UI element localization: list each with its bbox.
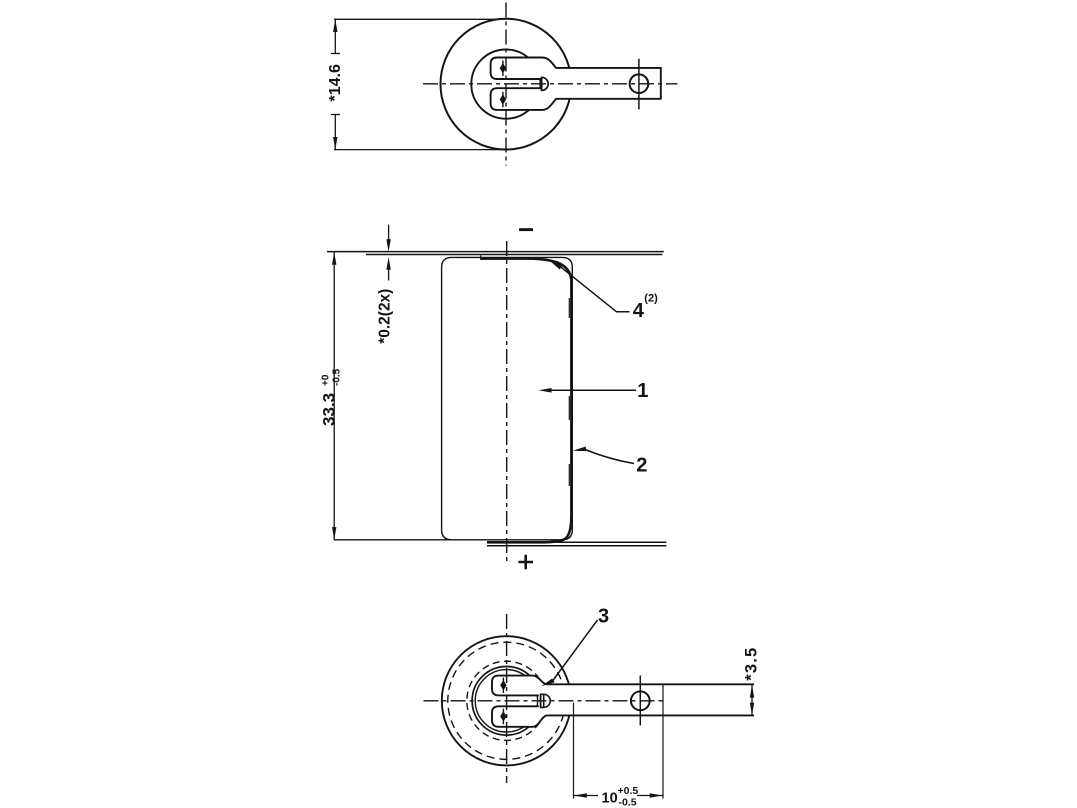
leader 4 arrowhead <box>550 261 563 269</box>
positive tab bottom surface line <box>487 545 666 547</box>
0.2 dimension upper arrow <box>386 225 390 252</box>
dimension text 33.3 +0 -0.5 <box>320 368 343 426</box>
dimension text *0.2(2x) <box>377 289 394 344</box>
leader 3 arrowhead <box>541 679 555 687</box>
positive tab top surface line (bottom of side view) <box>487 541 666 543</box>
svg-text:*14.6: *14.6 <box>327 64 344 101</box>
10 dimension line right segment <box>637 795 663 797</box>
slot cap chord line <box>541 77 543 90</box>
hidden circle (sleeve fold) dashed <box>448 642 565 759</box>
10 dimension left arrowhead <box>574 793 587 797</box>
svg-text:1: 1 <box>637 380 648 402</box>
tab hole bottom view <box>631 691 650 710</box>
svg-text:2: 2 <box>636 454 647 476</box>
dimension *14.6 lower arrowhead <box>333 137 337 150</box>
0.2 dimension lower arrow <box>386 257 390 281</box>
rivet pin in slot <box>541 694 551 707</box>
dimension *14.6 top extension line <box>334 18 499 20</box>
10 dimension left extension line <box>573 703 575 799</box>
dimension text *3.5 <box>743 647 761 681</box>
3.5 dimension lower arrowhead <box>750 703 754 716</box>
negative tab bottom surface line <box>366 254 662 256</box>
leader 2 arrowhead <box>573 447 587 452</box>
weld projection mark lower (bottom view) <box>500 709 506 725</box>
10 dimension right arrowhead <box>650 793 663 797</box>
solder tab top view <box>491 58 661 110</box>
svg-text:+0: +0 <box>321 374 332 386</box>
sleeve step tick <box>480 256 482 260</box>
tab hole vertical centerline top view <box>638 59 640 110</box>
vertical centerline top view <box>505 3 507 166</box>
10 dimension line left segment <box>574 795 599 797</box>
dimension *14.6 dimension line lower segment <box>334 115 336 150</box>
svg-text:4: 4 <box>633 300 645 322</box>
svg-text:(2): (2) <box>644 292 658 304</box>
vertical centerline side view <box>506 241 508 563</box>
3.5 dimension arrow line <box>751 685 753 715</box>
33.3 dimension line <box>333 252 335 540</box>
negative tab top surface line (also 33.3 top extension) <box>327 251 664 253</box>
battery cell outline bottom view (outer circle) <box>442 636 571 765</box>
battery body side view <box>442 257 573 539</box>
svg-text:*3.5: *3.5 <box>743 647 761 681</box>
solder tab bottom view (fill) <box>492 676 754 727</box>
top cap inner circle <box>471 50 540 119</box>
dimension *14.6 break tick lower <box>331 114 340 116</box>
bottom cap outer circle <box>472 667 541 736</box>
hidden circle (inner feature) dashed <box>467 661 546 740</box>
plus polarity mark <box>518 555 533 570</box>
minus polarity mark <box>519 228 533 231</box>
insulation sleeve heavy outline (right side) <box>481 259 572 543</box>
slot cap semicircle <box>542 77 549 90</box>
tab hole vertical centerline bottom view <box>639 676 641 726</box>
svg-text:33.3: 33.3 <box>320 393 339 426</box>
svg-text:-0.5: -0.5 <box>619 797 637 808</box>
33.3 upper arrowhead <box>332 252 336 265</box>
dimension *14.6 break tick upper <box>331 53 340 55</box>
3.5 dimension upper arrowhead <box>750 685 754 698</box>
svg-text:10: 10 <box>602 790 618 806</box>
svg-text:3: 3 <box>598 605 609 627</box>
33.3 bottom extension line <box>334 539 452 541</box>
dimension *14.6 bottom extension line <box>334 149 503 151</box>
svg-text:-0.5: -0.5 <box>332 368 343 386</box>
weld projection mark upper (bottom view) <box>500 678 506 693</box>
battery cell outline top view (outer circle) <box>441 19 572 150</box>
dimension text *14.6 <box>327 64 344 101</box>
dimension *14.6 upper arrowhead <box>333 19 337 32</box>
svg-text:+0.5: +0.5 <box>618 785 639 797</box>
hidden line right edge <box>568 298 570 486</box>
leader 3 line <box>553 620 598 681</box>
svg-text:*0.2(2x): *0.2(2x) <box>377 289 394 344</box>
33.3 lower arrowhead <box>332 527 336 540</box>
weld projection mark upper (top view) <box>500 61 506 77</box>
10 dimension right extension line <box>662 684 664 798</box>
horizontal centerline bottom view <box>424 700 667 702</box>
dimension *14.6 dimension line upper segment <box>334 19 336 53</box>
leader 2 line <box>585 450 634 464</box>
weld projection mark lower (top view) <box>500 92 506 107</box>
vertical centerline bottom view <box>506 614 508 783</box>
horizontal centerline top view <box>423 83 678 85</box>
leader 4 line <box>561 267 630 312</box>
bottom cap inner circle <box>475 670 537 732</box>
solder tab bottom view (outline) <box>492 676 754 727</box>
leader 1 arrowhead <box>539 388 552 393</box>
tab hole top view <box>630 74 649 93</box>
leader 1 line <box>551 389 636 391</box>
